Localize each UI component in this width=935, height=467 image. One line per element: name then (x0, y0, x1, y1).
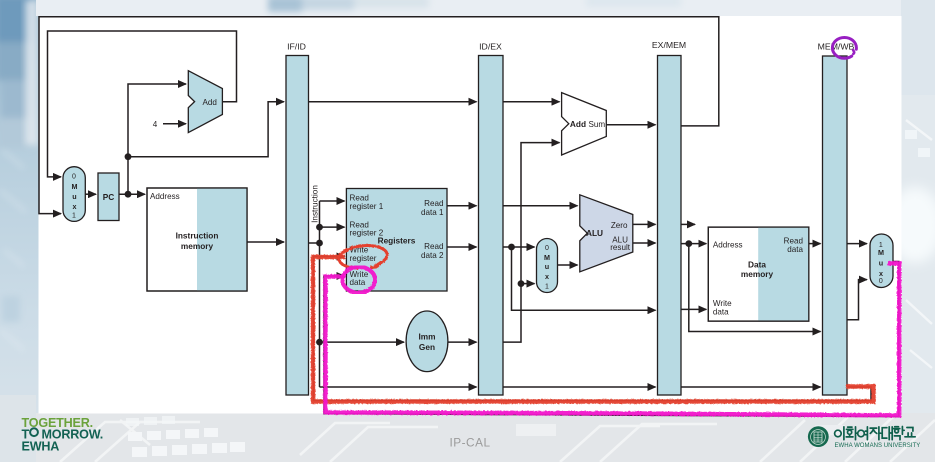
svg-text:u: u (545, 262, 549, 271)
svg-text:memory: memory (741, 269, 774, 279)
svg-text:data: data (787, 245, 803, 254)
svg-text:Add: Add (570, 119, 586, 129)
svg-text:Instruction: Instruction (176, 231, 219, 241)
svg-text:Sum: Sum (589, 120, 606, 129)
svg-text:u: u (879, 259, 883, 268)
svg-text:MEM/WB: MEM/WB (818, 41, 855, 51)
svg-text:ID/EX: ID/EX (479, 42, 502, 52)
svg-text:4: 4 (153, 120, 158, 129)
svg-text:M: M (72, 182, 78, 191)
svg-text:M: M (878, 248, 884, 257)
svg-text:IF/ID: IF/ID (287, 42, 306, 52)
svg-text:EWHA WOMANS UNIVERSITY: EWHA WOMANS UNIVERSITY (835, 443, 921, 449)
svg-text:EX/MEM: EX/MEM (652, 40, 686, 50)
svg-text:PC: PC (103, 192, 115, 202)
svg-text:register 1: register 1 (350, 202, 384, 211)
svg-text:memory: memory (181, 241, 214, 251)
svg-text:Imm: Imm (418, 332, 435, 342)
svg-text:Zero: Zero (611, 221, 628, 230)
svg-text:Registers: Registers (378, 236, 416, 246)
svg-text:1: 1 (72, 213, 76, 220)
svg-text:data: data (713, 307, 729, 316)
svg-text:ALU: ALU (586, 228, 603, 238)
svg-text:u: u (72, 192, 76, 201)
svg-text:Address: Address (150, 192, 180, 201)
svg-text:Gen: Gen (419, 342, 435, 352)
svg-text:0: 0 (72, 174, 76, 181)
svg-text:1: 1 (545, 283, 549, 290)
svg-text:Data: Data (748, 259, 766, 269)
svg-text:0: 0 (879, 278, 883, 285)
svg-text:data 2: data 2 (421, 251, 444, 260)
svg-text:result: result (610, 243, 631, 252)
svg-text:EWHA: EWHA (22, 440, 60, 454)
svg-text:M: M (544, 253, 550, 262)
svg-text:Address: Address (713, 240, 743, 249)
svg-text:Instruction: Instruction (311, 185, 320, 223)
svg-text:0: 0 (545, 245, 549, 252)
svg-text:x: x (879, 269, 883, 278)
svg-text:Add: Add (203, 98, 217, 107)
svg-text:data 1: data 1 (421, 208, 444, 217)
svg-text:x: x (73, 202, 77, 211)
svg-text:register: register (350, 254, 377, 263)
svg-text:IP-CAL: IP-CAL (449, 436, 490, 450)
svg-text:data: data (350, 278, 366, 287)
svg-text:x: x (545, 272, 549, 281)
